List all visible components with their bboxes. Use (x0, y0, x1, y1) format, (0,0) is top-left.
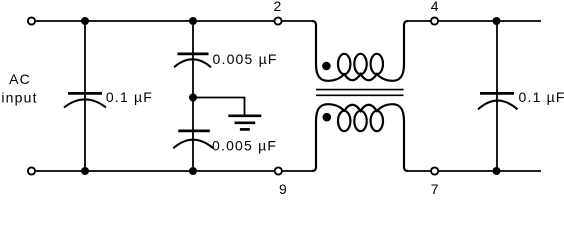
transformer T1 primary winding (312, 21, 408, 81)
wire top-left rail (32, 20, 313, 22)
wire top-right rail (408, 20, 541, 22)
terminal AC input bottom (28, 167, 35, 174)
capacitor C2 0.005 uF top (174, 54, 211, 67)
ground (228, 116, 261, 130)
wire right capacitor branch (496, 21, 498, 171)
terminal pin 4 (431, 17, 438, 24)
junction top-right (493, 17, 501, 25)
wire left capacitor branch (84, 21, 86, 171)
wire ground feed (193, 98, 245, 116)
transformer phase dot primary (322, 62, 331, 71)
svg-text:0.005 µF: 0.005 µF (213, 51, 278, 67)
svg-text:7: 7 (431, 181, 440, 196)
junction bottom-middle (189, 167, 197, 175)
junction bottom-right (493, 167, 501, 175)
junction middle branch (189, 94, 197, 102)
wire middle capacitor branch (192, 21, 194, 171)
svg-text:0.005 µF: 0.005 µF (212, 138, 277, 154)
svg-text:0.1 µF: 0.1 µF (106, 89, 153, 105)
transformer T1 secondary winding (312, 104, 408, 171)
capacitor C3 0.005 uF bottom (173, 131, 213, 148)
terminal pin 7 (431, 167, 438, 174)
svg-text:input: input (1, 90, 37, 106)
wire bottom-right rail (408, 170, 541, 172)
transformer phase dot secondary (323, 113, 332, 122)
capacitor C1 0.1 uF left (64, 93, 106, 107)
svg-text:9: 9 (279, 181, 288, 196)
junction top-left (81, 17, 89, 25)
svg-text:4: 4 (431, 0, 440, 14)
svg-text:2: 2 (274, 0, 283, 14)
terminal pin 2 (274, 17, 281, 24)
transformer T1 core (316, 90, 404, 96)
terminal AC input top (28, 17, 35, 24)
svg-text:0.1 µF: 0.1 µF (519, 89, 564, 105)
terminal pin 9 (275, 167, 282, 174)
capacitor C4 0.1 uF right (478, 93, 518, 109)
junction bottom-left (81, 167, 89, 175)
wire bottom-left rail (32, 170, 313, 172)
svg-text:AC: AC (9, 71, 31, 87)
junction top-middle (189, 17, 197, 25)
